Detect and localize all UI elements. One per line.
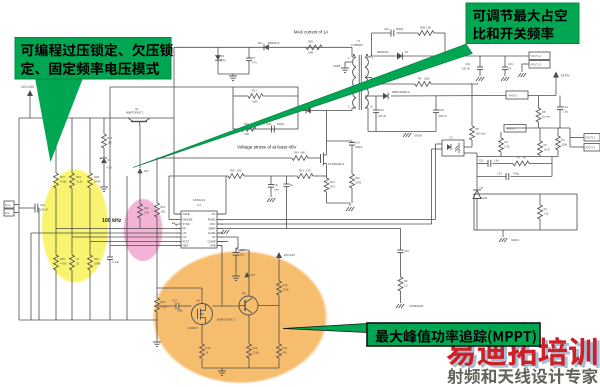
ground LGND stub <box>217 230 229 234</box>
svg-text:VFB: VFB <box>210 244 215 248</box>
capacitor C13a 220uF <box>373 96 386 132</box>
svg-text:220 uF: 220 uF <box>40 208 48 212</box>
wire R12 to gnd row <box>327 192 351 203</box>
svg-text:PP: PP <box>183 227 187 231</box>
wire column x56 middle <box>55 188 57 255</box>
wire snubber <box>372 33 446 56</box>
svg-text:GND8: GND8 <box>333 64 341 68</box>
wire bus ISET y245.5 <box>110 245 181 247</box>
diode D2 <box>70 255 80 270</box>
label voltage stress <box>237 145 297 150</box>
svg-text:54.9k: 54.9k <box>94 180 101 184</box>
svg-text:R1: R1 <box>562 138 566 142</box>
svg-text:47k: 47k <box>283 351 288 355</box>
svg-text:D2: D2 <box>76 262 80 266</box>
wire left column x19 <box>18 118 20 320</box>
svg-text:D3: D3 <box>405 50 409 54</box>
ground GND8 secondary <box>403 133 422 138</box>
wire lower right box <box>474 194 577 230</box>
capacitor C8 5.6n <box>267 176 280 202</box>
svg-text:0.36: 0.36 <box>505 145 511 149</box>
svg-text:ISET: ISET <box>183 244 189 248</box>
wire column x127 <box>126 176 128 320</box>
svg-text:MAX current of 1A: MAX current of 1A <box>294 30 328 35</box>
svg-text:1.8n: 1.8n <box>494 159 500 163</box>
zener Z2 14V <box>215 47 226 74</box>
wire column x72 upper <box>71 118 73 173</box>
svg-text:1.0u: 1.0u <box>563 110 569 114</box>
transistor U4 2N2307 <box>188 299 213 331</box>
svg-text:R21: R21 <box>161 205 166 209</box>
capacitor C7 4.7u <box>246 47 258 74</box>
svg-text:VC: VC <box>212 212 216 216</box>
svg-text:VINO-1: VINO-1 <box>507 127 516 131</box>
ground under C19 <box>471 77 484 86</box>
resistor R4 0.36 <box>499 138 511 152</box>
wire R24 to zener <box>103 148 105 158</box>
capacitor C16 560pF <box>384 27 404 37</box>
ground mppt <box>218 368 226 375</box>
svg-text:U3: U3 <box>449 136 453 140</box>
wire column x157 mid <box>156 217 158 298</box>
svg-text:R14: R14 <box>294 151 299 155</box>
wire R9 to gnd <box>400 291 402 303</box>
wire column x157 upper <box>156 158 158 203</box>
ground GND3 <box>499 230 519 242</box>
resistor R24b 3.10k <box>155 298 168 312</box>
svg-text:R23: R23 <box>76 175 81 179</box>
wire mid rail y128 <box>506 127 570 129</box>
wire column x90 upper <box>89 118 91 173</box>
svg-text:150 ohm: 150 ohm <box>476 132 486 136</box>
wire U4 source down <box>201 325 203 345</box>
svg-text:R19: R19 <box>283 283 288 287</box>
wire drain up x326.5 <box>326 111 328 154</box>
svg-text:R6: R6 <box>418 77 422 81</box>
wire C10 bottom <box>559 110 561 128</box>
svg-text:41.2k: 41.2k <box>76 180 83 184</box>
ground under Z1 <box>100 163 108 191</box>
svg-text:R20: R20 <box>94 257 99 261</box>
wire R10 bottom <box>351 188 353 203</box>
svg-text:1R1: 1R1 <box>330 185 335 189</box>
svg-text:4.42k: 4.42k <box>60 262 67 266</box>
svg-text:2.2k: 2.2k <box>544 212 550 216</box>
svg-text:786p: 786p <box>177 309 183 313</box>
wire isense vert x169 <box>169 176 179 220</box>
svg-text:1.8k: 1.8k <box>426 26 432 30</box>
svg-text:R8: R8 <box>542 110 546 114</box>
svg-text:TL431: TL431 <box>480 196 488 200</box>
wire sense row y156.5 <box>477 156 558 158</box>
wire R8 col <box>538 96 540 109</box>
wire Q2 base right <box>258 305 279 307</box>
svg-text:R24: R24 <box>161 300 166 304</box>
svg-text:C4: C4 <box>508 67 512 71</box>
svg-text:5.36: 5.36 <box>306 169 312 173</box>
svg-text:10k: 10k <box>161 210 166 214</box>
label 12V-24V <box>21 85 35 89</box>
svg-text:U5: U5 <box>480 186 484 190</box>
svg-text:U1: U1 <box>197 203 201 207</box>
svg-text:3.10k: 3.10k <box>161 305 168 309</box>
wire opto left vert a <box>435 144 437 220</box>
wire vino rail y96 <box>368 95 556 98</box>
svg-text:220 uF: 220 uF <box>439 114 447 118</box>
svg-text:R25: R25 <box>60 257 65 261</box>
svg-text:15.8k: 15.8k <box>253 351 260 355</box>
diode D21 MBR1100 <box>258 41 280 50</box>
terminal IN+1 <box>4 201 19 208</box>
svg-text:COMMON1: COMMON1 <box>409 304 424 308</box>
diode D4 MBR1100 clamp <box>303 104 315 114</box>
wire R14 to gate <box>308 157 321 159</box>
label T1 <box>351 39 363 47</box>
wire bus RT y228.5 <box>56 228 181 230</box>
label CS51221 <box>193 198 206 207</box>
svg-text:R28: R28 <box>308 40 313 44</box>
resistor R6 15k0 <box>415 77 431 87</box>
node 12V-24V input arrow <box>27 90 33 118</box>
svg-text:C24: C24 <box>40 203 45 207</box>
svg-text:R13: R13 <box>299 169 304 173</box>
wire S1 to C17 <box>217 237 238 250</box>
svg-text:Voltage stress of at least 40V: Voltage stress of at least 40V <box>237 145 297 150</box>
wire column x39 <box>38 208 39 320</box>
capacitor C17 10u <box>233 248 246 276</box>
resistor R25 4.42k <box>54 255 67 270</box>
svg-text:NTD4N06LG: NTD4N06LG <box>328 162 344 166</box>
capacitor C18 560pF <box>266 122 285 133</box>
terminal VOUT1-2 <box>518 61 550 78</box>
node 13.0V arrow <box>553 72 570 96</box>
callout box: adjustable max duty cycle and switching frequency <box>466 3 579 44</box>
resistor R27 4.53k <box>54 173 67 188</box>
label MAX current of 1A <box>294 30 328 35</box>
svg-text:560pF: 560pF <box>396 27 404 31</box>
resistor R8 20ohm <box>536 108 551 122</box>
watermark tagline <box>447 368 598 384</box>
capacitor C14 220pF <box>327 141 363 175</box>
wire column x56 upper <box>55 118 57 173</box>
svg-text:C23: C23 <box>172 299 177 303</box>
svg-text:15k0: 15k0 <box>424 77 430 81</box>
resistor R24 10k <box>102 134 113 148</box>
svg-text:VOUT2-1: VOUT2-1 <box>585 137 596 140</box>
wire R3 bottom <box>539 155 541 157</box>
resistor R28 1M0 <box>306 40 322 55</box>
resistor R18 54.9k <box>88 173 101 188</box>
resistor R11 47k <box>277 344 288 358</box>
wire column x110 <box>109 87 111 257</box>
resistor R21 10k <box>155 203 166 217</box>
wire column x56 lower <box>55 270 57 320</box>
watermark logo text <box>447 337 597 366</box>
callout pointer triangle (top-left box) <box>35 78 83 162</box>
svg-text:10k0: 10k0 <box>252 100 258 104</box>
svg-text:20 ohm: 20 ohm <box>542 115 551 119</box>
svg-text:C21: C21 <box>508 62 513 66</box>
resistor R5 150ohm <box>470 126 486 140</box>
svg-text:C14: C14 <box>355 141 360 145</box>
svg-text:ATCT: ATCT <box>183 240 190 244</box>
svg-text:12V-24V: 12V-24V <box>21 85 35 89</box>
svg-text:4.53k: 4.53k <box>60 180 67 184</box>
svg-text:C16: C16 <box>384 27 389 31</box>
wire column x72 middle <box>71 188 73 255</box>
capacitor C12 470p <box>497 172 519 181</box>
wire VFB down x222 <box>217 246 222 307</box>
resistor R26 1M0 <box>241 122 256 136</box>
wire gate row y158 <box>157 157 292 159</box>
ground under C21 <box>501 77 509 81</box>
transistor U5 TL431 <box>473 186 488 203</box>
wire vout2 col x570 <box>569 128 571 147</box>
wire PGND rail y219.5 <box>217 219 436 221</box>
wire c11 row y163.4 <box>477 162 552 164</box>
svg-text:1M0: 1M0 <box>308 51 314 55</box>
label 100 kHz <box>102 218 122 224</box>
svg-text:1M0: 1M0 <box>244 132 250 136</box>
resistor R19 12.4k <box>277 281 290 295</box>
wire primary return y110.5 <box>298 110 352 112</box>
svg-text:R2B: R2B <box>420 26 425 30</box>
wire R1 col <box>557 128 559 136</box>
wire VC up x226 <box>217 176 226 214</box>
wire R4 bottom <box>500 152 502 157</box>
svg-text:Q2: Q2 <box>242 291 246 295</box>
capacitor C19 100uF <box>462 56 483 76</box>
wire R4 col <box>500 132 502 138</box>
svg-text:MBR1100: MBR1100 <box>268 41 280 45</box>
svg-text:IN+1: IN+1 <box>5 204 11 207</box>
svg-text:2N2307: 2N2307 <box>188 326 198 330</box>
svg-text:R12: R12 <box>330 180 335 184</box>
capacitor C13b 220uF <box>433 96 447 132</box>
svg-text:R4: R4 <box>505 140 509 144</box>
op-amp U3 optocoupler <box>442 136 464 157</box>
svg-text:C22: C22 <box>404 249 409 253</box>
capacitor C10 1.0u <box>557 105 569 114</box>
wire R1 bottom <box>557 150 559 157</box>
svg-text:0.1uF: 0.1uF <box>113 260 120 264</box>
svg-text:VREF: VREF <box>208 227 216 231</box>
wire bottom bus y320 <box>19 319 157 321</box>
svg-text:100 kHz: 100 kHz <box>102 218 122 224</box>
terminal VOUT2-1 <box>570 134 600 142</box>
wire top rail y47 <box>174 46 352 48</box>
wire opto left pins <box>432 144 443 149</box>
wire c12 row y176.5 <box>477 176 552 178</box>
wire C10 col <box>559 96 561 108</box>
wire column x104 <box>103 118 105 134</box>
svg-text:118k: 118k <box>562 143 568 147</box>
svg-text:UV: UV <box>183 231 187 235</box>
resistor R14 680 <box>292 151 308 161</box>
wire R8 bottom <box>538 122 540 128</box>
wire column x110 lower <box>109 260 111 320</box>
callout pointer wedge (MPPT box) <box>283 324 367 333</box>
capacitor C9 <box>284 176 293 229</box>
svg-text:C10: C10 <box>563 105 568 109</box>
node 2P2 test point <box>244 272 255 277</box>
wire R11 to bus <box>278 358 280 368</box>
svg-text:COMP: COMP <box>207 240 215 244</box>
yellow highlight ellipse <box>41 168 109 284</box>
pink highlight ellipse <box>123 198 163 262</box>
wire column x90 middle <box>89 188 91 255</box>
wire R18 to bus <box>201 358 203 368</box>
svg-text:12.4k: 12.4k <box>283 288 290 292</box>
svg-text:VINO-1: VINO-1 <box>509 94 518 98</box>
wire top-left rail y118 <box>19 117 174 119</box>
wire Q3 collector down x140 <box>139 126 141 168</box>
svg-text:ISENSE: ISENSE <box>183 218 193 222</box>
wire column x72 lower <box>71 270 73 320</box>
zener Z1 4.2V <box>100 158 112 170</box>
svg-text:3P3: 3P3 <box>144 169 149 173</box>
terminal VOUT2-2 <box>570 144 600 152</box>
resistor R3 16.7k <box>538 141 551 155</box>
ground under C17 <box>232 276 240 280</box>
wire COMP stub <box>217 241 228 243</box>
svg-text:C12: C12 <box>497 172 502 176</box>
terminal VOUT1-1 <box>529 52 550 60</box>
resistor R1 118k <box>556 136 568 150</box>
svg-text:R27: R27 <box>60 175 65 179</box>
wire sense row mid <box>244 175 297 177</box>
node 3P3 test point <box>137 168 149 173</box>
svg-text:1R0: 1R0 <box>237 169 242 173</box>
wire R16 to bus <box>248 358 250 368</box>
ground under x157 <box>153 342 161 346</box>
svg-text:13.0V: 13.0V <box>561 74 571 78</box>
svg-text:R11: R11 <box>283 346 288 350</box>
svg-text:PGND: PGND <box>208 218 216 222</box>
transistor Q2 MMBT2906LT1 <box>217 291 258 322</box>
callout pointer wedge (top-right box) <box>133 44 473 168</box>
svg-text:GND8: GND8 <box>414 134 422 138</box>
wire column x157 low <box>156 312 158 342</box>
svg-text:R16: R16 <box>253 346 258 350</box>
svg-text:2P2: 2P2 <box>251 273 256 277</box>
resistor R16 15.8k <box>247 344 260 358</box>
svg-text:S1: S1 <box>212 235 216 239</box>
wire VREF rail y228.5 <box>217 228 401 230</box>
wire U4 drain top <box>157 288 202 304</box>
svg-text:MBR1100: MBR1100 <box>377 50 389 54</box>
wire vref down x400 <box>400 229 402 251</box>
svg-text:GND3: GND3 <box>511 238 519 242</box>
diode D3 MBR1100 <box>377 50 409 60</box>
resistor R17 10k0 <box>233 89 298 104</box>
svg-text:D21: D21 <box>258 41 263 45</box>
svg-text:C8: C8 <box>274 183 278 187</box>
ground GND8 primary <box>333 62 352 72</box>
svg-text:3.3k: 3.3k <box>144 211 150 215</box>
svg-text:MMBT2906LT1: MMBT2906LT1 <box>217 318 237 322</box>
svg-text:OV: OV <box>183 235 187 239</box>
svg-text:Q3: Q3 <box>135 107 139 111</box>
wire r6 rail y84 <box>372 83 472 85</box>
svg-text:LGND: LGND <box>208 231 216 235</box>
svg-text:R18: R18 <box>206 346 211 350</box>
callout box: maximum peak power tracking MPPT <box>367 323 540 346</box>
resistor R20 0.99k <box>88 255 101 270</box>
svg-text:R17: R17 <box>252 89 257 93</box>
wire R3 col <box>539 128 541 141</box>
resistor R23 41.2k <box>70 173 83 188</box>
wire bus OV y237 <box>72 236 181 238</box>
wire R19 down <box>278 295 280 344</box>
svg-text:U4: U4 <box>196 299 200 303</box>
svg-text:TO68609: TO68609 <box>351 43 363 47</box>
svg-text:R15: R15 <box>230 169 235 173</box>
transformer T1 TO68609 <box>352 47 372 131</box>
wire clamp box <box>233 87 298 129</box>
orange highlight ellipse <box>152 250 328 384</box>
svg-text:VOUT2-2: VOUT2-2 <box>585 147 596 150</box>
svg-text:16.7k: 16.7k <box>544 148 551 152</box>
svg-text:1.0: 1.0 <box>404 284 408 288</box>
wire opto right pins <box>464 153 477 190</box>
wire R5 to opto <box>464 140 472 147</box>
svg-text:5.6n: 5.6n <box>274 188 280 192</box>
capacitor C21 4.7u <box>502 56 513 76</box>
svg-text:C11: C11 <box>479 159 484 163</box>
capacitor C6 0.1uF <box>107 257 120 264</box>
resistor R13 5.36 <box>297 169 313 179</box>
wire left vert x174 <box>174 47 181 214</box>
resistor R2 2.2k <box>538 194 550 230</box>
wire sense row end <box>313 175 327 177</box>
wire VCC rail y224 <box>217 223 432 225</box>
svg-text:R7: R7 <box>517 156 521 160</box>
svg-text:R1B: R1B <box>94 175 99 179</box>
svg-text:C15: C15 <box>439 108 444 112</box>
svg-text:R2: R2 <box>544 207 548 211</box>
wire column x90 lower <box>89 270 91 320</box>
svg-text:CS51221: CS51221 <box>193 198 206 202</box>
wire to R9 <box>400 253 402 277</box>
wire bus ATCT y241.5 <box>90 241 181 243</box>
wire mppt bottom bus <box>202 367 279 369</box>
svg-text:14V: 14V <box>221 59 226 63</box>
wire vout1 rail y56 <box>370 55 529 57</box>
svg-text:VOUT1-2: VOUT1-2 <box>531 64 542 67</box>
svg-text:SYNC: SYNC <box>183 222 191 226</box>
label transformer pins <box>348 57 374 109</box>
wire source down <box>326 166 328 178</box>
svg-text:C7: C7 <box>252 56 256 60</box>
terminal IN-2 <box>4 209 19 216</box>
svg-text:680: 680 <box>301 151 306 155</box>
resistor R22 3.3k <box>138 204 150 218</box>
wire right row tie <box>551 157 553 177</box>
transistor Q4 NTD4N06LG <box>321 153 345 167</box>
terminal VINO-1 on rail <box>506 91 528 99</box>
capacitor C24 220uF <box>19 203 48 213</box>
terminal VINO-1b <box>504 125 526 133</box>
svg-text:470p: 470p <box>513 172 519 176</box>
svg-text:10u: 10u <box>240 253 245 257</box>
resistor R9 1.0 <box>398 277 408 291</box>
ground sense gnd <box>346 203 354 211</box>
ground under Z2 C7 <box>218 74 249 80</box>
node SYNC squiggle <box>172 223 178 226</box>
resistor R7 <box>513 156 529 166</box>
wire q3 feed y87 <box>110 86 233 88</box>
